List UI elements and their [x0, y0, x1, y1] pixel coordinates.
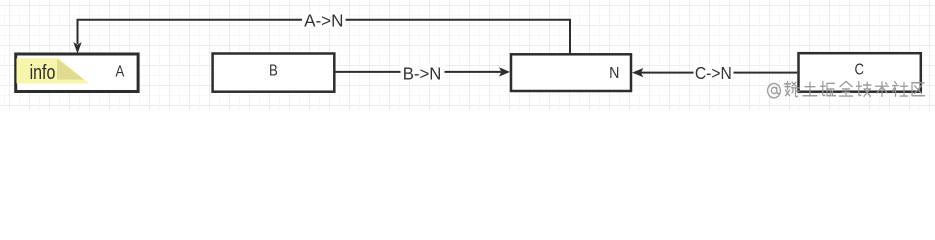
label C	[855, 62, 865, 79]
wire edge A->N (orthogonal: from N top, up, left, down into A top)	[78, 20, 571, 54]
svg-text:B->N: B->N	[403, 63, 442, 84]
watermark glyph 掘	[821, 82, 836, 96]
node box A	[16, 54, 138, 92]
watermark glyph 金	[840, 81, 853, 96]
note tag "info" on node A (yellow sticky with folded corner)	[17, 58, 90, 83]
watermark glyph 区	[912, 83, 925, 96]
label A	[116, 63, 125, 80]
svg-text:A->N: A->N	[304, 10, 343, 31]
watermark glyph 术	[876, 82, 889, 97]
watermark glyph @	[768, 83, 781, 97]
watermark glyph 技	[857, 82, 872, 97]
watermark glyph 稀	[785, 81, 800, 96]
label A->N	[302, 10, 346, 31]
wire edge C->N	[641, 72, 797, 74]
label N	[609, 65, 619, 82]
watermark glyph 社	[893, 82, 908, 97]
arrowhead of edge A->N pointing down into node A	[73, 42, 81, 54]
svg-text:B: B	[269, 63, 278, 80]
svg-text:A: A	[116, 63, 125, 80]
label B	[269, 63, 278, 80]
svg-text:C: C	[855, 62, 865, 79]
arrowhead of edge B->N pointing right into node N	[499, 67, 510, 76]
node box C	[799, 53, 921, 91]
watermark glyph 土	[803, 82, 817, 96]
node box B	[213, 54, 335, 92]
svg-text:N: N	[609, 65, 619, 82]
svg-text:C->N: C->N	[695, 63, 732, 83]
svg-text:info: info	[30, 61, 56, 83]
label B->N	[401, 63, 445, 84]
watermark @稀土掘金技术社区 (hand-drawn glyph strokes; grader lacks CJK fonts)	[768, 81, 925, 97]
node box N	[511, 54, 631, 91]
label C->N	[694, 63, 734, 83]
wire edge B->N	[336, 71, 502, 73]
arrowhead of edge C->N pointing left into node N	[632, 68, 643, 77]
